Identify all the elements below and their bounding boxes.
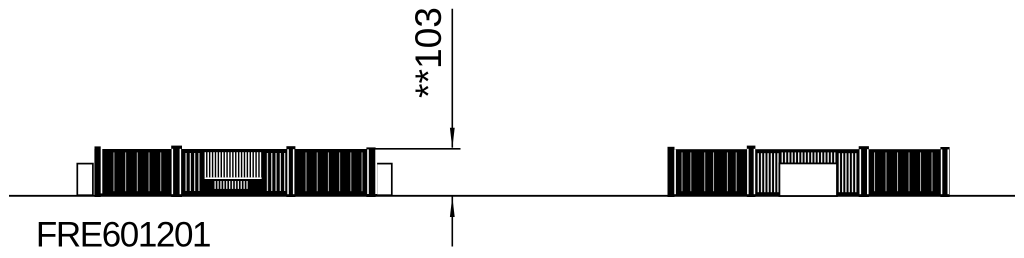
- ladder rung lower stripe 7: [232, 181, 233, 189]
- left panel B slat line 6: [362, 152, 363, 191]
- left fence: left footer block: [77, 164, 93, 196]
- gap line left of right post 3: [860, 149, 862, 194]
- right baluster line 7 (left of opening): [777, 153, 778, 192]
- ladder rung upper stripe 19: [257, 152, 258, 177]
- left panel A slat line 1: [113, 152, 114, 191]
- left fence post 2: [171, 146, 182, 197]
- left baluster line 5 (right group): [284, 153, 285, 191]
- ladder rung upper stripe 2: [208, 152, 209, 177]
- left panel A slat line 3: [137, 152, 138, 191]
- baluster line 16 above opening: [831, 152, 832, 162]
- right panel B slat line 5: [920, 152, 921, 191]
- ladder rung upper stripe 4: [213, 152, 214, 177]
- baluster line 13 above opening: [821, 152, 822, 162]
- right baluster line 5 (right of opening): [852, 153, 853, 192]
- ladder rung upper stripe 18: [254, 152, 255, 177]
- ladder rung lower stripe 2: [217, 181, 218, 189]
- baluster line 8 above opening: [805, 152, 806, 162]
- ladder rung lower stripe 6: [229, 181, 230, 189]
- ladder rung upper stripe 3: [210, 152, 211, 177]
- left baluster line 3 (right group): [275, 153, 276, 191]
- ladder rung lower stripe 12: [246, 181, 247, 189]
- left panel A slat line 2: [125, 152, 126, 191]
- gap line right of right post 4: [948, 149, 950, 194]
- ladder rung upper stripe 15: [245, 152, 246, 177]
- left panel B slat line 4: [339, 152, 340, 191]
- left fence post 1: [95, 146, 101, 197]
- left baluster line 3 (left group): [194, 153, 195, 191]
- left baluster line 4 (right group): [280, 153, 281, 191]
- gap line left of right post 2: [747, 149, 749, 194]
- right fence post 3: [859, 146, 869, 197]
- right baluster line 2 (left of opening): [761, 153, 762, 192]
- right baluster line 3 (left of opening): [764, 153, 765, 192]
- gap line right of post 2: [180, 149, 182, 194]
- right baluster line 6 (left of opening): [774, 153, 775, 192]
- right panel A slat line 4: [713, 152, 714, 191]
- left baluster line 1 (right group): [267, 153, 268, 191]
- gap line right of right post 2: [754, 149, 756, 194]
- gap line right of post 4: [375, 149, 377, 194]
- ladder rung lower stripe 4: [223, 181, 224, 189]
- ladder rung upper stripe 6: [219, 152, 220, 177]
- right panel A slat line 1: [682, 152, 683, 191]
- ladder rung upper stripe 9: [228, 152, 229, 177]
- ladder rung upper stripe 8: [225, 152, 226, 177]
- right baluster line 6 (right of opening): [855, 153, 856, 192]
- right baluster line 4 (left of opening): [767, 153, 768, 192]
- dimension arrow pointing down: [450, 128, 455, 149]
- left baluster line 2 (right group): [271, 153, 272, 191]
- left panel B slat line 3: [328, 152, 329, 191]
- baluster line 1 above opening: [782, 152, 783, 162]
- left fence: main black body: [94, 149, 375, 196]
- baluster line 7 above opening: [801, 152, 802, 162]
- baluster line 12 above opening: [818, 152, 819, 162]
- ladder horizontal rail: [205, 177, 262, 179]
- ladder rung lower stripe 1: [215, 181, 216, 189]
- left panel A slat line 4: [149, 152, 150, 191]
- right fence post 4: [940, 147, 949, 197]
- right fence post 1: [668, 147, 675, 197]
- ladder rung upper stripe 5: [216, 152, 217, 177]
- left fence: right footer block: [376, 164, 391, 196]
- right panel A slat line 5: [727, 152, 728, 191]
- right panel B slat line 4: [909, 152, 910, 191]
- gap line right of right post 1: [674, 149, 676, 194]
- ladder rung lower stripe 11: [244, 181, 245, 189]
- dimension arrow pointing up: [450, 196, 455, 217]
- ladder rung upper stripe 1: [205, 152, 206, 177]
- right panel A slat line 2: [690, 152, 691, 191]
- gap line right of right post 3: [867, 149, 869, 194]
- baluster line 6 above opening: [798, 152, 799, 162]
- right panel B slat line 1: [874, 152, 875, 191]
- dimension line upper segment: [451, 9, 453, 148]
- svg-text:FRE601201: FRE601201: [36, 216, 210, 255]
- baluster line 17 above opening: [834, 152, 835, 162]
- dimension extension line (top of fence): [370, 148, 461, 150]
- ladder rung lower stripe 10: [241, 181, 242, 189]
- gap line right of post 3: [293, 149, 295, 194]
- ground line: [9, 195, 1015, 197]
- ladder rung upper stripe 13: [239, 152, 240, 177]
- right baluster line 5 (left of opening): [771, 153, 772, 192]
- ladder rung lower stripe 8: [235, 181, 236, 189]
- baluster line 9 above opening: [808, 152, 809, 162]
- right panel A slat line 3: [704, 152, 705, 191]
- right baluster line 4 (right of opening): [849, 153, 850, 192]
- ladder rung upper stripe 7: [222, 152, 223, 177]
- right fence: main black body: [668, 149, 950, 196]
- left fence post 3: [286, 146, 295, 197]
- dimension line lower segment: [451, 196, 453, 247]
- ladder rung upper stripe 11: [234, 152, 235, 177]
- left panel B slat line 5: [350, 152, 351, 191]
- baluster line 5 above opening: [795, 152, 796, 162]
- right panel B slat line 6: [932, 152, 933, 191]
- crawl opening: [779, 163, 837, 196]
- ladder rung upper stripe 20: [260, 152, 261, 177]
- baluster line 3 above opening: [788, 152, 789, 162]
- right baluster line 1 (right of opening): [839, 153, 840, 192]
- left baluster line 2 (left group): [190, 153, 191, 191]
- right fence post 2: [747, 146, 756, 197]
- right panel B slat line 2: [886, 152, 887, 191]
- left fence post 4: [366, 147, 375, 197]
- ladder rung upper stripe 10: [231, 152, 232, 177]
- ladder rung upper stripe 16: [248, 152, 249, 177]
- ladder rung lower stripe 9: [238, 181, 239, 189]
- ladder rung lower stripe 5: [226, 181, 227, 189]
- baluster line 15 above opening: [828, 152, 829, 162]
- right panel B slat line 3: [897, 152, 898, 191]
- left baluster line 4 (left group): [198, 153, 199, 191]
- baluster line 4 above opening: [791, 152, 792, 162]
- ladder rung upper stripe 14: [242, 152, 243, 177]
- ladder rung upper stripe 17: [251, 152, 252, 177]
- gap line left of post 4: [367, 149, 369, 194]
- left panel A slat line 5: [160, 152, 161, 191]
- gap line left of post 3: [287, 149, 289, 194]
- left panel B slat line 1: [306, 152, 307, 191]
- svg-text:**103: **103: [407, 7, 449, 98]
- gap line right of post 1: [101, 149, 103, 194]
- right baluster line 2 (right of opening): [842, 153, 843, 192]
- baluster line 11 above opening: [814, 152, 815, 162]
- right baluster line 3 (right of opening): [845, 153, 846, 192]
- baluster line 14 above opening: [824, 152, 825, 162]
- ladder rung lower stripe 3: [220, 181, 221, 189]
- right baluster line 1 (left of opening): [758, 153, 759, 192]
- left panel B slat line 2: [317, 152, 318, 191]
- gap line left of right post 4: [941, 149, 943, 194]
- baluster line 10 above opening: [811, 152, 812, 162]
- gap line left of post 2: [172, 149, 174, 194]
- baluster line 2 above opening: [785, 152, 786, 162]
- left baluster line 1 (left group): [185, 153, 186, 191]
- ladder rung upper stripe 12: [237, 152, 238, 177]
- right panel A slat line 6: [736, 152, 737, 191]
